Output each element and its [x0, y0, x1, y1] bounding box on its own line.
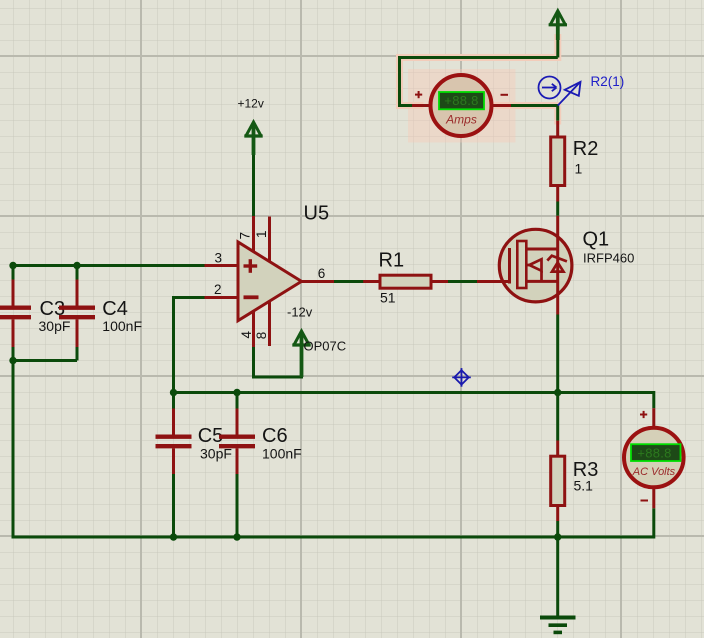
- node: Q1 source/R3/mid rail: [554, 389, 561, 396]
- junction node dots: [9, 262, 561, 541]
- svg-text:Q1: Q1: [583, 229, 610, 251]
- power +12v arrow: [244, 122, 262, 155]
- pin 1 stub: [268, 217, 271, 262]
- voltmeter + mark: [640, 411, 647, 418]
- voltmeter (AC Volts): [624, 408, 684, 508]
- pin 7 stub: [252, 216, 255, 252]
- pin 6 stub: [302, 280, 335, 283]
- power +V arrow (top): [549, 11, 567, 40]
- plus marker: [244, 259, 258, 273]
- current probe R2(1): [539, 77, 581, 106]
- svg-text:51: 51: [380, 289, 396, 305]
- capacitor C5: [156, 409, 192, 475]
- resistor R3: [551, 441, 565, 522]
- wire: top row, corner down to ammeter + pin: [400, 58, 558, 106]
- pin 2 stub: [205, 296, 239, 299]
- wire: R3 bottom to rail: [556, 521, 559, 537]
- svg-text:30pF: 30pF: [39, 318, 71, 334]
- selection highlight rect around ammeter: [408, 69, 516, 143]
- svg-text:C4: C4: [102, 298, 128, 320]
- svg-text:4: 4: [239, 331, 254, 339]
- svg-text:C6: C6: [262, 425, 288, 447]
- wire: C4 top stub: [76, 266, 79, 280]
- source pin + diode spine: [556, 249, 559, 315]
- wire: R1 to Q1 gate: [448, 280, 477, 283]
- power -12v arrow: [292, 331, 310, 377]
- svg-text:1: 1: [254, 230, 269, 238]
- pin 4 stub: [252, 311, 255, 347]
- wire: C6 top stub: [236, 393, 239, 409]
- resistor R2: [551, 121, 565, 202]
- svg-text:R2: R2: [573, 138, 599, 160]
- node: C3/C4 bottom join: [9, 357, 16, 364]
- ammeter - mark: [501, 94, 509, 96]
- svg-text:+12v: +12v: [238, 97, 264, 111]
- substrate arrow: [526, 264, 529, 267]
- node: C4 top: [73, 262, 80, 269]
- wire: C4 bottom stub: [76, 347, 79, 361]
- svg-text:7: 7: [238, 232, 253, 240]
- svg-text:6: 6: [318, 266, 326, 281]
- svg-text:R2(1): R2(1): [591, 74, 625, 89]
- svg-text:5.1: 5.1: [574, 478, 594, 494]
- drain pin: [556, 216, 559, 249]
- pin 3 stub: [205, 264, 239, 267]
- wire: mid horizontal rail to voltmeter +: [174, 393, 654, 409]
- selection halo on wires near ammeter: [400, 38, 558, 122]
- wire: op-amp out to R1: [334, 280, 365, 283]
- svg-text:+88.8: +88.8: [444, 93, 478, 108]
- wire: pin3 row from left rail: [13, 264, 205, 267]
- capacitor C6: [219, 409, 255, 475]
- node: feedback/C5/mid rail: [170, 389, 177, 396]
- svg-text:AC Volts: AC Volts: [632, 466, 676, 478]
- pin 8 stub: [268, 301, 271, 346]
- body diode: [552, 263, 564, 272]
- svg-text:2: 2: [214, 282, 222, 297]
- svg-text:U5: U5: [304, 203, 330, 225]
- svg-text:Amps: Amps: [445, 112, 477, 126]
- wire: pin2 feedback row: [174, 298, 205, 393]
- wire: voltmeter - down, bottom rail: [12, 508, 654, 537]
- channel bar: [517, 241, 526, 288]
- node: C6 top: [233, 389, 240, 396]
- svg-text:1: 1: [575, 160, 583, 176]
- wire: ground stem: [556, 537, 559, 618]
- wire: +V arrow stem to top row corner: [556, 28, 559, 58]
- transistor Q1 (MOSFET): [477, 216, 572, 315]
- wire: Q1 source down to mid rail: [556, 315, 559, 393]
- source stub: [526, 280, 557, 283]
- svg-text:+88.8: +88.8: [637, 445, 671, 460]
- svg-text:100nF: 100nF: [262, 446, 302, 462]
- capacitor C3: [0, 280, 31, 348]
- origin marker (blue crosshair): [452, 368, 471, 387]
- gate pin: [477, 280, 508, 283]
- svg-text:R1: R1: [379, 250, 405, 272]
- resistor R1: [363, 275, 448, 288]
- wire: pin4 to -12v arrow path: [254, 334, 302, 377]
- ammeter AM (Amps): [412, 75, 511, 136]
- svg-text:8: 8: [254, 332, 269, 340]
- svg-text:3: 3: [215, 250, 223, 265]
- ground: [540, 618, 576, 633]
- node: C6 bottom: [233, 533, 240, 540]
- wire: R3 top: [556, 393, 559, 441]
- svg-text:OP07C: OP07C: [304, 338, 347, 353]
- svg-text:100nF: 100nF: [102, 318, 142, 334]
- voltmeter - mark: [641, 500, 649, 502]
- ammeter + mark: [415, 91, 422, 98]
- wire: C6 bottom to rail: [236, 474, 239, 537]
- wire: left rail C3 top stub: [12, 266, 15, 280]
- svg-text:IRFP460: IRFP460: [583, 250, 634, 265]
- wire: C5 bottom to rail: [172, 474, 175, 537]
- node: C5 bottom: [170, 533, 177, 540]
- wire: C3 bottom stub and jog: [13, 347, 77, 361]
- gate bar: [508, 248, 511, 284]
- svg-text:-12v: -12v: [287, 305, 313, 320]
- wire: left rail down to bottom corner: [12, 361, 15, 538]
- wire: C5 top stub: [172, 393, 175, 409]
- wire: +12v stem to pin 7: [252, 153, 255, 216]
- wire: ammeter - to R2 top corner: [511, 106, 558, 121]
- drain stub: [526, 248, 557, 251]
- node: pin3/left rail: [9, 262, 16, 269]
- node: R3 bottom/ground: [554, 533, 561, 540]
- op-amp U5: [205, 216, 335, 347]
- capacitor C4: [59, 280, 95, 348]
- minus marker: [244, 295, 259, 299]
- wire: R2 bottom to Q1 drain: [556, 202, 559, 216]
